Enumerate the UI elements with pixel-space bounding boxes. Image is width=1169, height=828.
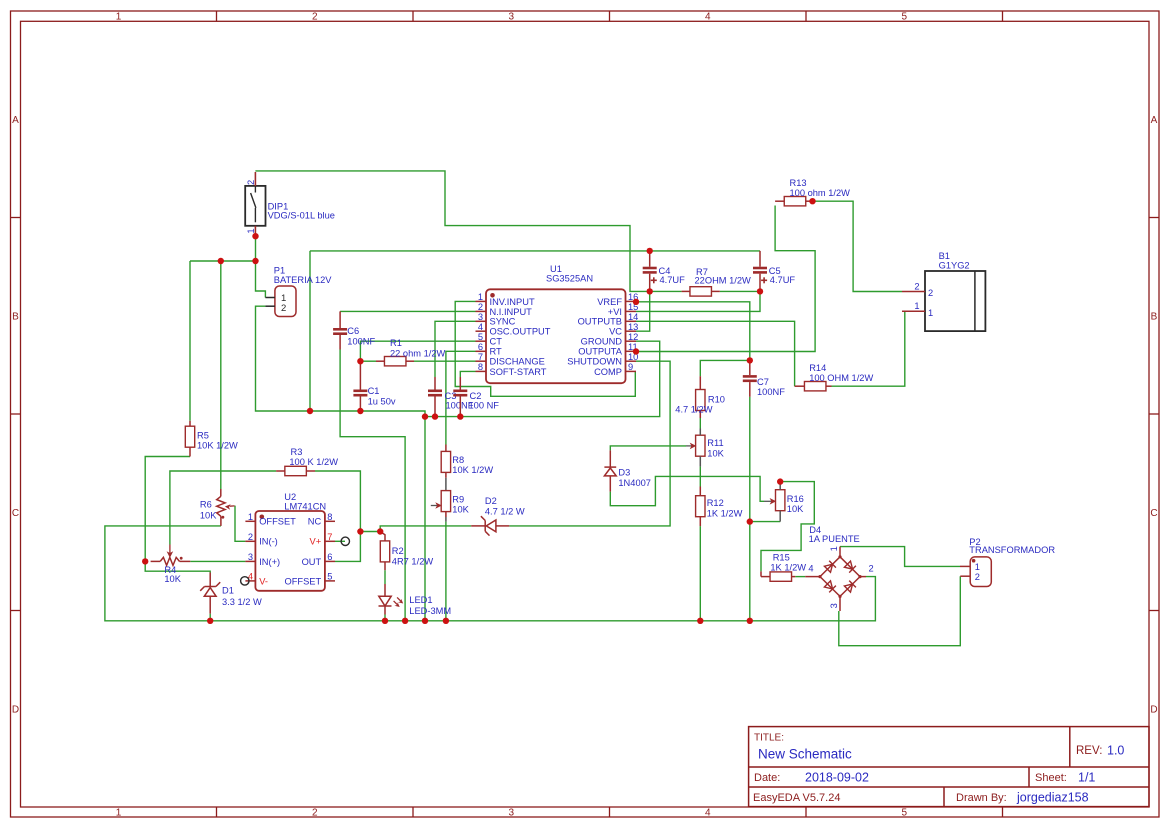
wire: R7 right [720, 290, 760, 292]
resistor R3 [276, 447, 338, 476]
svg-text:1: 1 [116, 807, 122, 818]
svg-text:R8: R8 [452, 455, 464, 465]
svg-text:100 NF: 100 NF [469, 401, 500, 411]
svg-text:R2: R2 [392, 546, 404, 556]
wire: R16 bottom tie to ground line [750, 521, 780, 523]
junction [443, 618, 449, 624]
svg-text:OUT: OUT [302, 557, 322, 567]
svg-text:2: 2 [478, 302, 483, 312]
junction [647, 288, 653, 294]
svg-text:6: 6 [478, 342, 483, 352]
svg-text:4.7 1/2W: 4.7 1/2W [675, 405, 712, 415]
svg-text:10K 1/2W: 10K 1/2W [452, 465, 493, 475]
svg-text:2: 2 [928, 288, 933, 298]
resistor R11 [686, 429, 725, 467]
svg-text:1: 1 [478, 292, 483, 302]
wire: C7 bottom ground line [749, 397, 751, 621]
junction [252, 258, 258, 264]
capacitor C5 [753, 251, 795, 292]
svg-text:4.7 1/2 W: 4.7 1/2 W [485, 506, 525, 516]
svg-text:1: 1 [116, 12, 122, 23]
wire: VC pin 13 riser [636, 291, 650, 331]
svg-text:D1: D1 [222, 586, 234, 596]
junction [633, 299, 639, 305]
svg-text:C1: C1 [368, 386, 380, 396]
svg-text:1A PUENTE: 1A PUENTE [809, 534, 860, 544]
junction [432, 413, 438, 419]
title block [749, 727, 1149, 807]
svg-text:D: D [12, 704, 19, 715]
svg-text:2: 2 [914, 282, 919, 292]
svg-text:SOFT-START: SOFT-START [490, 367, 547, 377]
svg-text:Date:: Date: [754, 772, 780, 784]
wire: SYNC pin 3 to C3 [435, 321, 476, 377]
wire: LED1 to ground bus [384, 615, 386, 621]
svg-text:R11: R11 [707, 438, 723, 448]
svg-text:4.7UF: 4.7UF [660, 275, 686, 285]
junction [377, 528, 383, 534]
wire: +12V top rail [310, 250, 760, 252]
wire: R5 bottom to R4 left [145, 457, 190, 562]
svg-text:100 K 1/2W: 100 K 1/2W [289, 457, 338, 467]
junction [382, 618, 388, 624]
svg-text:OSC.OUTPUT: OSC.OUTPUT [490, 327, 551, 337]
wire: OUTPUTB pin 14 to R14 left [636, 321, 795, 386]
junction [218, 258, 224, 264]
resistor R16 [764, 483, 804, 522]
junction [357, 358, 363, 364]
svg-text:D2: D2 [485, 496, 497, 506]
svg-text:OFFSET: OFFSET [285, 576, 322, 586]
junction [422, 413, 428, 419]
wire: U2 V+ pin 7 stub into circle [335, 540, 345, 542]
resistor R2 [380, 532, 433, 571]
svg-text:R12: R12 [707, 498, 724, 508]
wire: ground bus drop x425 [424, 417, 426, 621]
IC U1 SG3525AN [476, 264, 639, 383]
capacitor C7 [743, 360, 785, 397]
svg-text:3: 3 [509, 12, 515, 23]
svg-text:C: C [1150, 508, 1157, 519]
svg-text:100NF: 100NF [757, 387, 785, 397]
svg-text:C6: C6 [347, 326, 359, 336]
svg-text:7: 7 [478, 352, 483, 362]
svg-text:4: 4 [808, 564, 813, 574]
svg-text:BATERIA 12V: BATERIA 12V [274, 275, 333, 285]
svg-text:GROUND: GROUND [581, 337, 623, 347]
wire: node to R1 left [360, 360, 376, 362]
capacitor C6 [333, 311, 375, 349]
svg-text:D: D [1150, 704, 1157, 715]
resistor R5 [185, 421, 238, 457]
svg-text:Drawn By:: Drawn By: [956, 792, 1007, 804]
svg-text:R3: R3 [291, 447, 303, 457]
junction [757, 288, 763, 294]
wire: D2 cathode to SHUTDOWN pin 10 [509, 361, 670, 526]
connector P1 BATERIA 12V [265, 266, 332, 317]
potentiometer R4 [151, 545, 191, 585]
svg-text:13: 13 [628, 322, 638, 332]
svg-text:LED-3MM: LED-3MM [409, 606, 451, 616]
wire: D3 cathode to R11 wiper [610, 446, 686, 451]
svg-text:14: 14 [628, 312, 638, 322]
junction [357, 408, 363, 414]
wire: R6 top feed [220, 261, 222, 489]
wire: D4 pin 1 to P2 pin 1 [840, 547, 960, 567]
svg-text:+VI: +VI [608, 307, 622, 317]
wire: bottom ground bus [105, 526, 876, 621]
wire: RT pin 6 to R8 [446, 351, 476, 444]
junction [647, 248, 653, 254]
svg-text:3: 3 [478, 312, 483, 322]
svg-text:Sheet:: Sheet: [1035, 772, 1067, 784]
wire: OUT node to R2 node [360, 531, 380, 533]
wire: R6 wiper to U2 IN(-) [235, 506, 246, 541]
svg-text:TITLE:: TITLE: [754, 733, 784, 744]
svg-text:8: 8 [327, 512, 332, 522]
svg-text:100 ohm 1/2W: 100 ohm 1/2W [790, 188, 851, 198]
wire: left rail at y261 [190, 260, 256, 262]
junction [633, 348, 639, 354]
svg-text:10K: 10K [164, 574, 181, 584]
op-amp U2 LM741CN [241, 492, 350, 591]
svg-text:OUTPUTB: OUTPUTB [578, 317, 622, 327]
wire: R4 right to U2 IN(+) [190, 560, 245, 562]
svg-text:10K 1/2W: 10K 1/2W [197, 441, 238, 451]
svg-text:B: B [1151, 311, 1158, 322]
svg-text:A: A [12, 115, 19, 126]
svg-text:SG3525AN: SG3525AN [546, 273, 593, 283]
junction [142, 558, 148, 564]
junction [809, 198, 815, 204]
resistor R8 [441, 445, 493, 491]
svg-text:4.7UF: 4.7UF [770, 275, 796, 285]
svg-text:C7: C7 [757, 377, 769, 387]
junction [422, 618, 428, 624]
wire: OUTPUTA pin 11 to R13 [636, 206, 815, 352]
svg-text:C: C [12, 508, 19, 519]
svg-text:10K: 10K [200, 510, 217, 520]
wire: R10 to R11 link [699, 418, 701, 429]
svg-text:IN(-): IN(-) [259, 537, 278, 547]
svg-text:R15: R15 [773, 553, 790, 563]
wire: R15 right to D4 pin 4 [795, 576, 805, 578]
wire: R2 to LED1 [384, 570, 386, 584]
svg-text:9: 9 [628, 362, 633, 372]
resistor R7 [682, 267, 751, 296]
wire: C6 bottom to ground bus [340, 350, 405, 621]
svg-text:1: 1 [246, 228, 256, 233]
svg-text:NC: NC [308, 517, 322, 527]
wire: P2 pin 2 to D4 pin 3 [839, 576, 961, 646]
resistor R1 [376, 338, 446, 366]
junction [457, 413, 463, 419]
svg-text:R13: R13 [790, 178, 807, 188]
svg-text:100 OHM 1/2W: 100 OHM 1/2W [809, 373, 873, 383]
resistor R14 [795, 363, 874, 391]
svg-text:2: 2 [281, 303, 286, 314]
svg-text:R1: R1 [390, 338, 402, 348]
svg-text:VC: VC [609, 327, 622, 337]
wire: C7 node to R10 top [700, 360, 750, 376]
connector B1 G1YG2 [902, 251, 985, 331]
svg-text:2: 2 [248, 532, 253, 542]
wire: CT pin 5 to R1/C1 node [360, 341, 475, 361]
svg-text:G1YG2: G1YG2 [939, 261, 970, 271]
resistor R10 [675, 376, 725, 418]
wire: R3 right to U2 OUT [315, 471, 360, 561]
svg-text:LM741CN: LM741CN [284, 501, 326, 511]
svg-text:REV:: REV: [1076, 745, 1102, 757]
svg-text:4: 4 [705, 12, 711, 23]
svg-text:10K: 10K [452, 505, 469, 515]
svg-text:OUTPUTA: OUTPUTA [578, 347, 623, 357]
svg-text:VREF: VREF [597, 297, 622, 307]
resistor R15 [761, 553, 806, 582]
wire: INV.INPUT pin 1 to COMP pin 9 [455, 301, 635, 396]
junction [402, 618, 408, 624]
wire: VREF pin 16 to C7 node [636, 302, 750, 361]
switch DIP1 [245, 172, 335, 235]
svg-text:1: 1 [975, 562, 980, 572]
svg-text:LED1: LED1 [409, 595, 432, 605]
svg-text:22 ohm 1/2W: 22 ohm 1/2W [390, 348, 446, 358]
svg-text:10K: 10K [707, 449, 724, 459]
wire: R5 top feed [189, 261, 191, 421]
connector P2 TRANSFORMADOR [960, 537, 1055, 587]
svg-text:SYNC: SYNC [490, 317, 516, 327]
svg-text:3: 3 [509, 807, 515, 818]
zener diode D1 [200, 573, 262, 621]
junction [697, 618, 703, 624]
svg-text:B1: B1 [939, 251, 950, 261]
svg-text:OFFSET: OFFSET [259, 517, 296, 527]
svg-text:1/1: 1/1 [1078, 771, 1095, 785]
svg-text:5: 5 [478, 332, 483, 342]
diode D3 [604, 450, 651, 491]
resistor R12 [696, 487, 743, 527]
svg-text:2: 2 [312, 12, 318, 23]
svg-text:New Schematic: New Schematic [758, 747, 852, 762]
svg-text:RT: RT [490, 347, 503, 357]
bridge rectifier D4 [805, 525, 873, 611]
capacitor C3 [428, 377, 474, 417]
svg-text:2018-09-02: 2018-09-02 [805, 771, 869, 785]
svg-text:B: B [12, 311, 19, 322]
wire: R2 node to D2 anode [380, 526, 471, 532]
svg-text:1: 1 [829, 546, 839, 551]
svg-text:INV.INPUT: INV.INPUT [490, 297, 535, 307]
svg-text:CT: CT [490, 337, 503, 347]
svg-text:P1: P1 [274, 266, 285, 276]
svg-text:1: 1 [914, 301, 919, 311]
svg-text:1: 1 [928, 308, 933, 318]
svg-text:COMP: COMP [594, 367, 622, 377]
svg-text:IN(+): IN(+) [259, 557, 280, 567]
svg-text:DISCHANGE: DISCHANGE [490, 357, 545, 367]
svg-text:12: 12 [628, 332, 638, 342]
svg-text:1K 1/2W: 1K 1/2W [770, 562, 806, 572]
junction [207, 618, 213, 624]
svg-text:1K 1/2W: 1K 1/2W [707, 508, 743, 518]
wire: R14 right to B1 pin 1 [832, 311, 905, 386]
wire: DIP1 bottom to P1 pin 1 [256, 236, 266, 297]
svg-text:4: 4 [705, 807, 711, 818]
svg-text:100NF: 100NF [347, 336, 375, 346]
svg-text:V+: V+ [310, 537, 322, 547]
resistor R13 [775, 178, 850, 206]
capacitor C1 [353, 361, 395, 411]
junction [357, 528, 363, 534]
svg-text:4R7 1/2W: 4R7 1/2W [392, 556, 434, 566]
svg-text:1: 1 [248, 512, 253, 522]
svg-text:EasyEDA V5.7.24: EasyEDA V5.7.24 [753, 792, 840, 804]
svg-text:3: 3 [829, 603, 839, 608]
junction [252, 233, 258, 239]
resistor R9 [431, 491, 470, 522]
svg-text:jorgediaz158: jorgediaz158 [1016, 791, 1089, 805]
svg-text:8: 8 [478, 362, 483, 372]
svg-text:R16: R16 [787, 494, 804, 504]
svg-text:4: 4 [478, 322, 483, 332]
wire: C6 top to N.I.INPUT pin 2 [340, 310, 475, 312]
wire: SOFT-START pin 8 to C2 [460, 371, 475, 377]
wire: D3 anode to R16 wiper [610, 476, 764, 505]
LED LED1 [379, 584, 452, 616]
wire: +VI pin 15 to C5 bottom [636, 291, 760, 311]
junction [747, 357, 753, 363]
svg-text:5: 5 [902, 807, 908, 818]
junction [747, 518, 753, 524]
svg-text:5: 5 [902, 12, 908, 23]
svg-text:VDG/S-01L blue: VDG/S-01L blue [268, 211, 335, 221]
junction [307, 408, 313, 414]
svg-text:10K: 10K [787, 504, 804, 514]
svg-text:R10: R10 [708, 395, 725, 405]
wire: battery rail vertical [309, 251, 311, 411]
svg-text:2: 2 [312, 807, 318, 818]
svg-text:1N4007: 1N4007 [618, 478, 651, 488]
wire: R4 left to D1 top [145, 561, 210, 572]
wire: DIP1 top to C4 bottom rail [255, 171, 648, 292]
wire: P1 pin 2 to ground bus and GROUND pin 12 [256, 306, 660, 416]
svg-text:N.I.INPUT: N.I.INPUT [490, 307, 533, 317]
junction [747, 618, 753, 624]
svg-text:R5: R5 [197, 431, 209, 441]
svg-text:3.3 1/2 W: 3.3 1/2 W [222, 597, 262, 607]
wire: R16 top staircase to R15 left [761, 482, 814, 572]
svg-text:1u 50v: 1u 50v [368, 397, 396, 407]
wire: R3 left to R4 wiper arrow [170, 471, 276, 545]
svg-text:22OHM 1/2W: 22OHM 1/2W [695, 275, 752, 285]
svg-text:R14: R14 [809, 363, 826, 373]
junction [777, 478, 783, 484]
svg-text:6: 6 [327, 552, 332, 562]
capacitor C2 [453, 377, 499, 417]
svg-text:SHUTDOWN: SHUTDOWN [567, 357, 622, 367]
svg-text:2: 2 [975, 572, 980, 582]
svg-text:2: 2 [869, 564, 874, 574]
svg-text:TRANSFORMADOR: TRANSFORMADOR [969, 545, 1055, 555]
svg-text:D3: D3 [618, 468, 630, 478]
wire: R9 bottom to ground bus [445, 522, 447, 621]
potentiometer R6 [200, 489, 235, 526]
svg-text:C2: C2 [470, 391, 482, 401]
svg-text:7: 7 [327, 532, 332, 542]
svg-text:3: 3 [248, 552, 253, 562]
wire: R13 right to B1 pin 2 [811, 201, 903, 291]
wire: R1 right to DISCHANGE pin 7 [414, 360, 476, 362]
svg-text:5: 5 [327, 572, 332, 582]
zener diode D2 [471, 496, 525, 536]
wire: R11 to R12 link [699, 467, 701, 487]
wire: R7 left [650, 290, 682, 292]
capacitor C4 [643, 251, 685, 292]
svg-text:R9: R9 [452, 495, 464, 505]
svg-text:A: A [1151, 115, 1158, 126]
svg-text:2: 2 [246, 180, 256, 185]
svg-text:1.0: 1.0 [1107, 744, 1124, 758]
svg-text:V-: V- [259, 576, 268, 586]
svg-text:R6: R6 [200, 500, 212, 510]
wire: R12 bottom to ground bus [699, 526, 701, 621]
